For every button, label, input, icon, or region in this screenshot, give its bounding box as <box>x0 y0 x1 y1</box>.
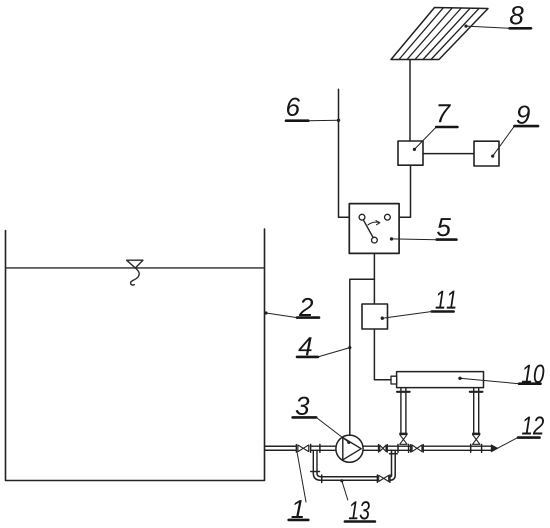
sprinkler riser 2 vertical valve (bowtie) <box>473 433 480 444</box>
outlet flow arrow <box>491 445 497 452</box>
manifold 10 <box>391 372 484 388</box>
controller box 7 <box>398 141 423 165</box>
label 9 <box>491 105 538 157</box>
label 13 <box>340 479 375 521</box>
label 10 <box>458 365 544 384</box>
solar panel 8 <box>391 8 488 60</box>
label 5 <box>390 218 457 240</box>
tank 2 outline <box>6 229 265 481</box>
label 6 <box>286 98 340 122</box>
suction pipe from tank (double line) <box>265 446 297 450</box>
label 3 <box>293 397 351 444</box>
riser tee 2 ticks <box>471 444 482 452</box>
valve 3 on main pipe (bowtie) <box>411 445 423 452</box>
switch arrow <box>368 221 380 225</box>
sprinkler riser 1 vertical valve (bowtie) <box>400 433 407 444</box>
tank water level symbol <box>127 260 143 285</box>
valve 1 (bowtie) <box>296 445 308 452</box>
label 2 <box>264 298 319 318</box>
control unit 11 <box>362 304 388 329</box>
sprinkler riser 1 pipe (double line up) <box>397 388 410 434</box>
pipe 4 (pump discharge riser) <box>350 279 375 435</box>
label 11 <box>381 291 456 320</box>
wire box7 to box9 <box>423 153 474 155</box>
switch lever <box>363 220 373 238</box>
valve after pump (bowtie) <box>379 445 388 452</box>
pipe valve to riser tee 1 <box>387 446 411 450</box>
bypass loop 13 <box>311 450 397 482</box>
label 12 <box>497 416 545 448</box>
battery box 9 <box>474 141 499 166</box>
tank water level line <box>6 267 265 269</box>
pump 3 (circle with triangle) <box>336 435 363 462</box>
wire 6 (vertical line with bend into box 5) <box>339 89 350 217</box>
pipe pump to valve (double line) <box>363 446 379 450</box>
label 8 <box>464 6 531 28</box>
label 4 <box>297 337 351 357</box>
tee to bypass (left) <box>310 444 336 473</box>
switch terminals <box>359 214 390 243</box>
main pipe to outlet (double line) <box>423 446 491 450</box>
label 1 <box>289 452 309 520</box>
label 7 <box>413 104 458 151</box>
riser tee 1 ticks <box>398 444 409 452</box>
wire solar panel to box7 <box>409 60 411 142</box>
sprinkler riser 2 pipe (double line up) <box>470 388 483 434</box>
wire: box5 to box11 to manifold <box>374 243 391 380</box>
wire from box7 down into box 5 right side <box>399 165 410 217</box>
switch box 5 <box>349 204 399 254</box>
